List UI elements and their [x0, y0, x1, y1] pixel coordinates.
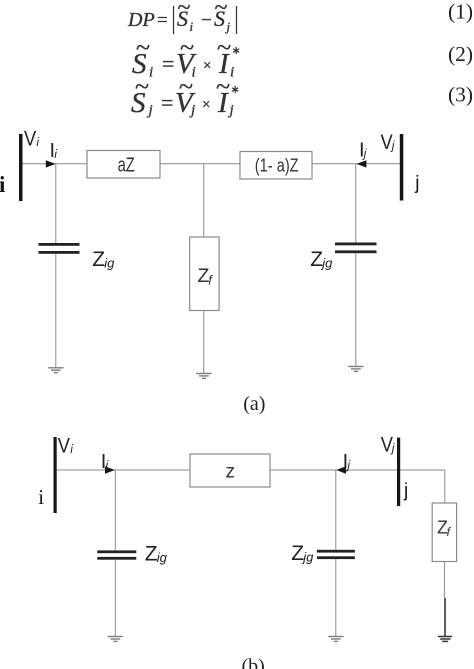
svg-text:(b): (b) [242, 656, 265, 669]
bus bar i (a) [19, 134, 23, 201]
label Z_jg (a) [310, 248, 333, 271]
impedance box z (b) [190, 454, 270, 487]
wire capacitor to ground (a right) [355, 253, 357, 366]
current arrow I_i (b) [105, 466, 115, 473]
equation 2: S~i = V~i x I~i* [132, 33, 241, 81]
ground (b right) [328, 637, 343, 642]
svg-text:aZ: aZ [118, 154, 135, 176]
label I_i (b) [101, 451, 109, 473]
svg-text:i: i [54, 147, 57, 161]
wire bus j down branch (a) [355, 164, 357, 243]
wire Z_f box to ground (b) [443, 562, 445, 599]
svg-text:~: ~ [136, 33, 150, 62]
equation 3: S~j = V~j x I~j* [131, 72, 240, 119]
svg-text:j: j [403, 480, 408, 501]
label I_j (a) [359, 140, 367, 162]
capacitor Z_ig (a) [39, 243, 80, 254]
capacitor Z_jg (b) [317, 550, 355, 559]
svg-text:jg: jg [320, 256, 333, 271]
label V_j (b) [381, 433, 395, 456]
svg-text:~: ~ [216, 72, 230, 101]
capacitor Z_ig (b) [97, 550, 136, 559]
svg-text:i: i [190, 19, 194, 34]
impedance box (1-a)Z [240, 152, 312, 180]
ground (a right) [348, 367, 363, 372]
ground (b left) [108, 637, 123, 642]
wire bus i down branch (a) [55, 164, 57, 244]
wire lower segment to ground (b, darker) [444, 598, 446, 636]
svg-text:=: = [161, 90, 173, 115]
svg-text:×: × [203, 58, 211, 74]
wire junction down branch (b right) [335, 470, 337, 550]
wire junction down branch (b left) [114, 470, 116, 551]
svg-text:i: i [36, 135, 39, 149]
svg-text:V: V [58, 434, 70, 457]
svg-text:(1): (1) [448, 0, 473, 24]
current arrow I_j (a) [357, 160, 367, 167]
impedance box Z_f (b) [432, 503, 456, 562]
impedance box Z_f (a) [190, 237, 219, 311]
current arrow I_i (a) [46, 160, 56, 167]
svg-text:~: ~ [180, 33, 194, 62]
svg-text:i: i [149, 65, 153, 81]
svg-text:DP: DP [127, 9, 155, 31]
svg-text:jg: jg [301, 550, 314, 565]
wire bus i to z box (b) [57, 469, 190, 471]
svg-text:~: ~ [178, 0, 191, 21]
svg-text:×: × [202, 97, 210, 113]
wire capacitor to ground (b left) [114, 560, 116, 636]
wire z box to corner (b) [270, 469, 445, 471]
bus bar i (b) [54, 437, 57, 513]
svg-text:i: i [38, 485, 44, 509]
svg-text:~: ~ [179, 72, 193, 101]
svg-text:(3): (3) [448, 83, 473, 107]
wire junction to Z_f box (a) [203, 164, 205, 237]
svg-text:−: − [201, 10, 212, 31]
label I_j (b) [343, 451, 351, 473]
impedance box aZ [87, 151, 160, 179]
svg-text:~: ~ [217, 33, 231, 62]
svg-text:(a): (a) [243, 393, 265, 415]
wire (1-a)Z box to bus j (a) [312, 163, 400, 165]
label I_i (a) [50, 140, 58, 162]
capacitor Z_jg (a) [335, 243, 377, 254]
svg-text:∗: ∗ [231, 84, 240, 96]
wire Z_f box to ground (a) [203, 311, 205, 374]
svg-text:z: z [226, 462, 236, 483]
svg-text:~: ~ [135, 72, 149, 101]
svg-text:i: i [230, 65, 234, 81]
svg-text:i: i [106, 458, 109, 472]
label Z_jg (b) [291, 542, 314, 565]
wire capacitor to ground (a left) [55, 254, 57, 367]
svg-text:i: i [0, 172, 6, 197]
wire corner down to Z_f box (b) [444, 470, 446, 503]
bus bar j (b) [397, 438, 400, 507]
svg-text:ig: ig [104, 256, 115, 271]
label Z_ig (b) [145, 542, 168, 565]
svg-text:=: = [157, 10, 168, 31]
svg-text:(1- a)Z: (1- a)Z [255, 155, 299, 176]
wire bus i to aZ box (a) [23, 163, 88, 165]
label Z_ig (a) [92, 248, 115, 271]
svg-text:V: V [24, 128, 36, 151]
ground (b far right, dark) [438, 637, 452, 642]
wire capacitor to ground (b right) [335, 559, 337, 636]
svg-text:j: j [414, 173, 419, 194]
current arrow I_j (b) [336, 466, 346, 473]
ground (a middle) [196, 374, 211, 379]
ground (a left) [48, 368, 63, 373]
svg-text:ig: ig [157, 550, 168, 565]
svg-text:(2): (2) [448, 42, 473, 66]
label V_i (a) [24, 128, 39, 151]
label V_i (b) [58, 434, 74, 457]
svg-text:=: = [162, 51, 174, 76]
svg-text:i: i [70, 442, 73, 456]
svg-text:∗: ∗ [232, 45, 241, 57]
label V_j (a) [381, 131, 395, 154]
svg-text:~: ~ [215, 0, 228, 21]
bus bar j (a) [400, 134, 404, 201]
wire aZ box to (1-a)Z box [160, 163, 240, 165]
equation 1: DP = |S~i - S~j| [127, 0, 237, 34]
